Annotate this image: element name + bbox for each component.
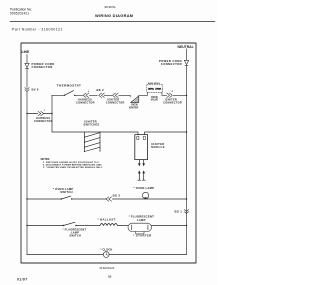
power cord connector right <box>184 60 188 65</box>
igniter module pins <box>137 136 139 139</box>
oven valve coil 1 <box>148 88 153 90</box>
igniter module U1 <box>135 135 148 160</box>
wire NEUTRAL bus upper <box>186 49 188 60</box>
thermostat switch <box>64 95 65 96</box>
svg-text:THERMOSTAT: THERMOSTAT <box>57 83 81 87</box>
svg-text:NOTES:: NOTES: <box>41 158 51 161</box>
svg-text:98-957E: 98-957E <box>105 5 116 9</box>
svg-text:VALVE: VALVE <box>151 99 159 102</box>
svg-text:SWITCH: SWITCH <box>69 233 81 237</box>
svg-text:4: 4 <box>172 90 174 93</box>
oven valve coil 2 <box>156 88 161 90</box>
spark electrode arrows down <box>138 163 141 166</box>
power cord connector left <box>25 63 29 68</box>
starter <box>136 232 144 234</box>
wire LINE bus lower <box>26 92 28 255</box>
igniter connector on thermostat rung <box>113 93 119 97</box>
svg-text:IGNITER: IGNITER <box>129 107 139 109</box>
harness connector 1 <box>38 111 44 115</box>
oven igniter <box>131 96 139 103</box>
clock rung wire <box>27 254 187 256</box>
igniter switches rails <box>85 132 101 152</box>
svg-text:2. DISCONNECT POWER BEFORE SER: 2. DISCONNECT POWER BEFORE SERVICING UNI… <box>43 165 102 167</box>
svg-text:1: 1 <box>44 110 46 112</box>
svg-text:CONNECTOR: CONNECTOR <box>106 102 125 105</box>
ballast coil <box>100 224 118 226</box>
igniter module output wires <box>139 160 143 164</box>
svg-text:LAMP: LAMP <box>137 218 146 222</box>
wire NEUTRAL bus lower <box>186 66 188 255</box>
svg-text:316000121: 316000121 <box>99 266 115 270</box>
wire LINE bus mid <box>26 69 28 88</box>
svg-text:BK 2: BK 2 <box>97 88 105 92</box>
igniter switches ladder top wire <box>52 132 187 135</box>
electrode feet <box>138 179 145 181</box>
svg-text:3: 3 <box>88 91 90 93</box>
svg-text:BG 1: BG 1 <box>175 209 183 213</box>
svg-text:1. SWITCHES SHOWN IN OFF POSIT: 1. SWITCHES SHOWN IN OFF POSITION AT 75 … <box>43 161 100 164</box>
igniter switch 3 <box>85 143 101 148</box>
svg-text:5995202421: 5995202421 <box>10 12 29 16</box>
oven lamp <box>142 192 148 198</box>
harness connector rung <box>27 113 52 115</box>
header rule <box>10 20 215 22</box>
clock <box>103 252 109 258</box>
svg-text:SWITCHES: SWITCHES <box>84 123 100 127</box>
svg-text:* OVEN LAMP: * OVEN LAMP <box>134 186 155 190</box>
fluorescent rung wire <box>27 225 187 227</box>
connector BG 1 on neutral bus <box>184 210 188 214</box>
svg-text:OVEN: OVEN <box>131 105 138 107</box>
igniter switch 2 <box>85 138 101 143</box>
igniter switch contact dots <box>84 137 85 152</box>
svg-text:10: 10 <box>108 274 112 278</box>
fluorescent lamp <box>128 223 152 231</box>
connector BG 3 <box>106 197 112 201</box>
oven valve stubs <box>148 92 162 95</box>
node junction thermostat-neutral <box>186 95 187 96</box>
connector BK 2 <box>99 93 105 97</box>
oven lamp switch <box>61 198 62 199</box>
svg-text:CONNECTOR: CONNECTOR <box>161 62 182 66</box>
spark electrode arrows up <box>138 170 141 173</box>
wire vertical feeder x52 <box>51 95 53 132</box>
svg-text:CONNECTOR: CONNECTOR <box>163 102 182 105</box>
svg-text:MODULE: MODULE <box>151 145 165 149</box>
svg-text:01/97: 01/97 <box>17 277 28 281</box>
igniter connector 4 <box>167 93 173 97</box>
svg-text:Part Number - 316000121: Part Number - 316000121 <box>12 27 63 31</box>
svg-text:CONNECTOR: CONNECTOR <box>34 120 53 123</box>
svg-text:CONNECTOR: CONNECTOR <box>76 102 95 105</box>
svg-text:* BALLAST: * BALLAST <box>98 218 116 222</box>
svg-text:* STARTER: * STARTER <box>133 233 151 237</box>
wire LINE bus upper <box>26 55 28 64</box>
oven valve dashed box <box>147 85 163 93</box>
thermostat rung wire <box>52 94 187 96</box>
diagram border frame <box>21 43 196 263</box>
svg-text:WIRING DIAGRAM: WIRING DIAGRAM <box>95 13 133 18</box>
fluorescent lamp switch <box>63 225 64 226</box>
connector BV 6 on line bus <box>25 88 29 92</box>
svg-text:BV 6: BV 6 <box>32 87 39 91</box>
svg-text:3. * DENOTES USED ON SELECTED: 3. * DENOTES USED ON SELECTED MODELS ONL… <box>43 167 103 169</box>
svg-text:* CLOCK: * CLOCK <box>100 248 112 252</box>
svg-text:BG 3: BG 3 <box>113 194 121 198</box>
harness connector on thermostat rung <box>83 93 89 97</box>
oven lamp rung wire <box>27 198 187 200</box>
svg-text:LINE: LINE <box>22 50 30 54</box>
igniter switch 4 <box>85 147 101 151</box>
igniter switch 1 <box>85 133 101 138</box>
svg-text:SWITCH: SWITCH <box>60 190 73 194</box>
svg-text:CONNECTOR: CONNECTOR <box>32 65 53 69</box>
svg-text:NEUTRAL: NEUTRAL <box>178 45 194 49</box>
